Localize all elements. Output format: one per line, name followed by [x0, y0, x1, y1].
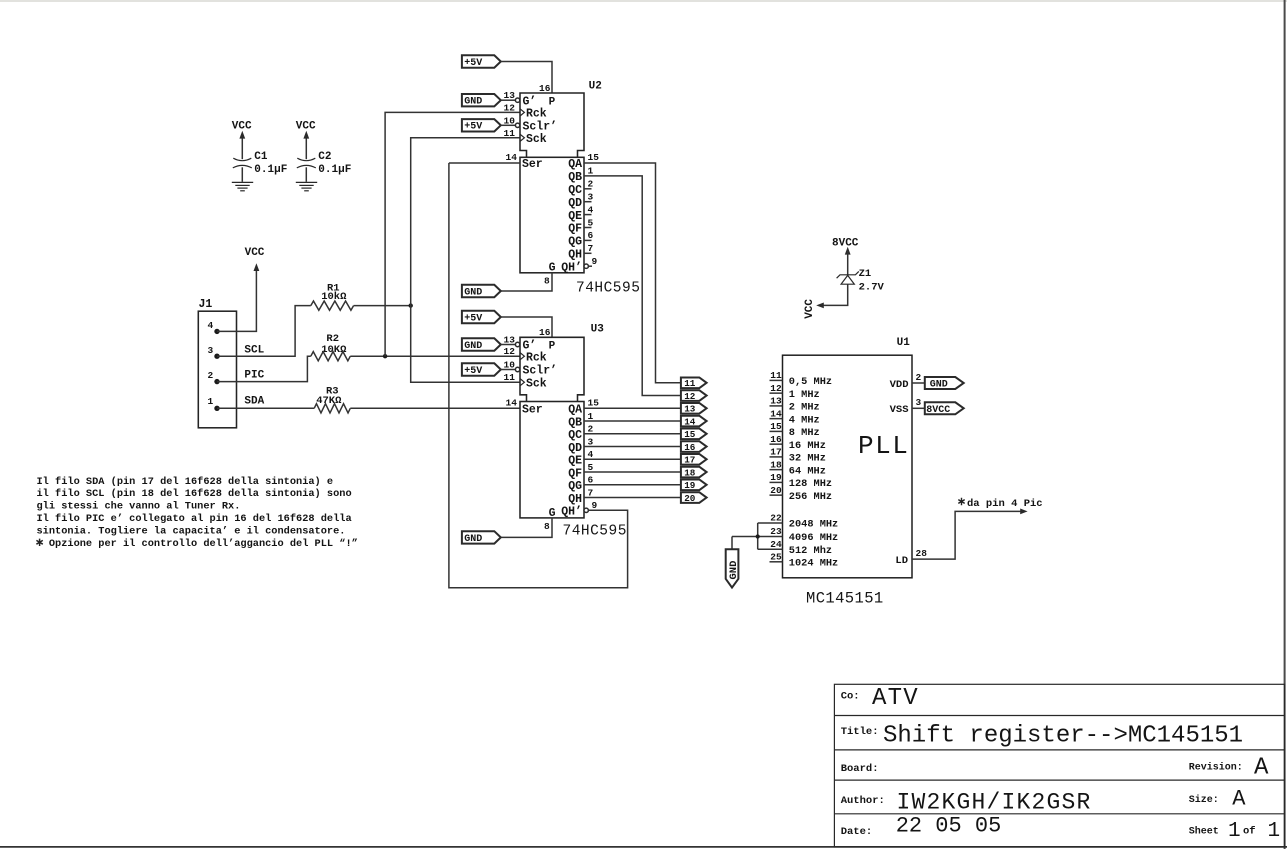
svg-text:il filo SCL (pin 18 del 16f628: il filo SCL (pin 18 del 16f628 della sin…	[37, 488, 352, 500]
svg-text:QH’: QH’	[561, 506, 582, 519]
svg-text:10: 10	[504, 115, 516, 126]
svg-text:6: 6	[588, 475, 594, 486]
pin 24 (512 Mhz)	[758, 539, 832, 557]
svg-text:9: 9	[592, 500, 598, 511]
svg-text:GND: GND	[464, 97, 482, 108]
svg-text:sintonia. Togliere la capacita: sintonia. Togliere la capacita’ e il con…	[37, 526, 346, 538]
power flag +5V (U2 Sclr')	[462, 119, 501, 133]
svg-text:15: 15	[770, 421, 782, 432]
svg-text:18: 18	[684, 467, 696, 478]
wire R2 out to U3 Rck	[350, 355, 520, 357]
pin 3 VSS	[890, 397, 925, 416]
svg-text:2048 MHz: 2048 MHz	[789, 519, 838, 531]
svg-text:Rck: Rck	[526, 351, 547, 364]
wire U2 G pin8 to GND	[501, 273, 552, 291]
svg-text:12: 12	[504, 346, 516, 357]
svg-text:G: G	[549, 262, 556, 275]
svg-text:24: 24	[770, 539, 782, 550]
svg-text:16: 16	[539, 83, 551, 94]
wire U2 QE stub	[584, 214, 592, 216]
svg-text:A: A	[1254, 755, 1269, 782]
power flag GND (PLL pins 22-24, vertical)	[726, 549, 740, 587]
svg-text:da pin 4 Pic: da pin 4 Pic	[967, 498, 1043, 510]
svg-text:+5V: +5V	[464, 313, 482, 324]
wire J1 pin4 to VCC	[217, 267, 256, 332]
svg-text:8: 8	[544, 276, 550, 287]
pin 13 (2 MHz)	[770, 396, 820, 414]
svg-text:Ser: Ser	[522, 404, 543, 417]
wire U2 QG stub	[584, 239, 592, 241]
svg-text:GND: GND	[464, 534, 482, 545]
svg-text:QF: QF	[568, 467, 582, 480]
svg-text:19: 19	[684, 480, 696, 491]
wire U3 QA to flag 13	[584, 407, 681, 409]
wire +5V to U3 Sclr'	[501, 369, 516, 371]
net flag 19	[681, 480, 707, 492]
shift register U3 74HC595 (control section)	[504, 324, 605, 402]
svg-text:GND: GND	[464, 287, 482, 298]
wire U3 QH to flag 20	[584, 497, 681, 499]
wire latch vertical to U2 Rck	[385, 112, 520, 356]
svg-text:17: 17	[684, 455, 695, 466]
svg-text:3: 3	[588, 436, 594, 447]
svg-text:13: 13	[684, 404, 696, 415]
svg-text:Ser: Ser	[522, 158, 543, 171]
wire U2 QA to flag 11	[584, 163, 681, 383]
wire +5V to U3 P	[501, 317, 552, 337]
svg-text:PIC: PIC	[244, 370, 264, 382]
wire U3 QH' cascade loop to U2 Ser	[449, 163, 628, 588]
svg-text:22: 22	[770, 513, 782, 524]
svg-text:28: 28	[916, 548, 928, 559]
svg-text:15: 15	[588, 152, 600, 163]
svg-text:1: 1	[1228, 820, 1241, 843]
svg-text:SCL: SCL	[244, 344, 264, 356]
svg-text:Revision:: Revision:	[1189, 761, 1243, 773]
svg-text:16: 16	[684, 442, 696, 453]
svg-text:2.7V: 2.7V	[859, 281, 885, 293]
svg-text:3: 3	[207, 345, 213, 356]
svg-text:11: 11	[504, 128, 516, 139]
zener diode Z1 2.7V	[804, 237, 885, 318]
node junction R1/clock	[409, 303, 413, 307]
svg-text:C2: C2	[318, 151, 331, 163]
wire U3 QF to flag 18	[584, 471, 681, 473]
shift register U2 74HC595 (output section)	[506, 152, 641, 297]
svg-text:0,5 MHz: 0,5 MHz	[789, 376, 832, 388]
shift register U2 74HC595 (control section)	[504, 81, 602, 158]
wire U3 QD to flag 16	[584, 446, 681, 448]
pin 15 (8 MHz)	[770, 421, 820, 439]
svg-text:of: of	[1243, 825, 1256, 837]
svg-text:GND: GND	[464, 341, 482, 352]
svg-text:U3: U3	[591, 324, 605, 336]
svg-text:QA: QA	[568, 158, 582, 171]
wire U2 QB to flag 12	[584, 176, 681, 396]
pin 2 VDD	[890, 372, 925, 391]
power flag GND (U3 pin8)	[462, 531, 501, 545]
net flag 14	[681, 416, 707, 428]
svg-text:47KΩ: 47KΩ	[316, 395, 342, 407]
svg-text:14: 14	[506, 152, 518, 163]
svg-text:3: 3	[588, 192, 594, 203]
svg-text:64 MHz: 64 MHz	[789, 465, 826, 477]
svg-text:16: 16	[539, 327, 551, 338]
pin 20 (256 MHz)	[770, 485, 833, 503]
power flag 8VCC (VSS)	[925, 402, 964, 416]
svg-text:Size:: Size:	[1189, 794, 1219, 806]
svg-text:ATV: ATV	[872, 685, 919, 712]
svg-text:7: 7	[588, 487, 594, 498]
pin 23 (4096 MHz)	[732, 526, 838, 544]
svg-text:QA: QA	[568, 404, 582, 417]
wire U2 QD stub	[584, 201, 592, 203]
power flag GND (U2 G')	[462, 94, 501, 108]
svg-text:8: 8	[544, 521, 550, 532]
svg-text:Title:: Title:	[841, 726, 879, 738]
svg-text:Sclr’: Sclr’	[523, 365, 558, 378]
wire GND to U3 G'	[501, 344, 516, 346]
sheet top border (faint)	[0, 0, 1287, 2]
svg-text:Author:: Author:	[841, 795, 885, 807]
svg-text:QD: QD	[568, 442, 582, 455]
svg-text:P: P	[549, 341, 556, 353]
svg-text:9: 9	[592, 256, 598, 267]
svg-text:G’: G’	[523, 95, 537, 108]
svg-text:gli stessi che vanno al Tuner: gli stessi che vanno al Tuner Rx.	[37, 501, 241, 513]
svg-text:4 MHz: 4 MHz	[789, 414, 820, 426]
svg-text:6: 6	[588, 230, 594, 241]
power flag +5V (U3 pin16)	[462, 311, 501, 325]
svg-text:QG: QG	[568, 236, 582, 249]
svg-text:13: 13	[504, 335, 516, 346]
svg-text:G: G	[549, 507, 556, 520]
wire R3 out to U3 Ser	[350, 407, 520, 409]
wire U2 QH stub	[584, 252, 592, 254]
svg-text:128 MHz: 128 MHz	[789, 478, 832, 490]
svg-text:Sheet: Sheet	[1189, 825, 1219, 837]
svg-text:25: 25	[770, 552, 782, 563]
svg-text:20: 20	[770, 485, 782, 496]
node SCL: wire J1 pin3 to R1	[217, 306, 311, 357]
pin 12 (1 MHz)	[770, 383, 820, 401]
svg-text:+5V: +5V	[464, 366, 482, 377]
svg-text:13: 13	[504, 90, 516, 101]
svg-text:MC145151: MC145151	[806, 590, 884, 608]
svg-text:16: 16	[770, 434, 782, 445]
svg-text:7: 7	[588, 243, 594, 254]
svg-text:SDA: SDA	[244, 395, 264, 407]
svg-text:VSS: VSS	[890, 404, 909, 416]
wire U3 QE to flag 17	[584, 458, 681, 460]
svg-text:74HC595: 74HC595	[576, 281, 640, 297]
svg-text:1024 MHz: 1024 MHz	[789, 557, 838, 569]
svg-text:QF: QF	[568, 223, 582, 236]
svg-text:74HC595: 74HC595	[563, 524, 627, 540]
svg-text:8VCC: 8VCC	[832, 237, 859, 249]
svg-text:QB: QB	[568, 171, 582, 184]
wire U2 QF stub	[584, 227, 592, 229]
power flag GND (U2 pin8)	[462, 285, 501, 299]
wire bracket pins 22-24	[757, 523, 759, 549]
wire U3 G pin8 to GND	[501, 518, 552, 538]
wire U2 QH' stub	[588, 265, 592, 267]
wire U2 Ser input (from cascade)	[449, 162, 520, 164]
svg-text:J1: J1	[199, 298, 213, 311]
svg-text:1: 1	[588, 166, 594, 177]
capacitor C2	[296, 120, 352, 182]
node junction R2/latch	[383, 354, 387, 358]
net flag 12	[681, 390, 707, 402]
wire +5V to U2 Sclr'	[501, 124, 516, 126]
pin 18 (64 MHz)	[770, 459, 826, 477]
power flag VCC (J1)	[245, 247, 265, 271]
svg-text:12: 12	[770, 383, 782, 394]
svg-text:VCC: VCC	[296, 120, 316, 132]
svg-text:QB: QB	[568, 416, 582, 429]
svg-text:5: 5	[588, 217, 594, 228]
svg-text:20: 20	[684, 493, 696, 504]
shift register U3 74HC595 (output section)	[506, 398, 627, 540]
resistor R1 10kOhm	[311, 282, 354, 310]
svg-text:Opzione per il controllo dell’: Opzione per il controllo dell’aggancio d…	[37, 538, 358, 550]
svg-text:1: 1	[588, 411, 594, 422]
power flag +5V (U3 Sclr')	[462, 363, 501, 377]
svg-text:QE: QE	[568, 210, 582, 223]
pin 19 (128 MHz)	[770, 472, 833, 490]
pin 17 (32 MHz)	[770, 447, 826, 465]
svg-text:Sck: Sck	[526, 377, 547, 390]
svg-text:13: 13	[770, 396, 782, 407]
Italian note text	[36, 476, 357, 550]
svg-text:A: A	[1232, 787, 1246, 812]
svg-text:14: 14	[506, 398, 518, 409]
svg-text:5: 5	[588, 462, 594, 473]
svg-text:4096 MHz: 4096 MHz	[789, 532, 838, 544]
wire to vertical GND flag	[731, 537, 733, 550]
svg-text:11: 11	[684, 378, 696, 389]
PLL U1 MC145151	[783, 337, 913, 608]
svg-text:GND: GND	[728, 561, 740, 580]
svg-text:QH’: QH’	[561, 261, 582, 274]
svg-text:0.1µF: 0.1µF	[318, 164, 351, 176]
svg-text:18: 18	[770, 459, 782, 470]
net flag 20	[681, 492, 707, 504]
svg-text:Z1: Z1	[859, 268, 872, 280]
node SDA: wire J1 pin1 to R3	[217, 407, 314, 409]
wire clock vertical to U2 Sck and U3 Sck	[411, 138, 520, 382]
pin 16 (16 MHz)	[770, 434, 826, 452]
svg-text:Il filo PIC e’ collegato al pi: Il filo PIC e’ collegato al pin 16 del 1…	[37, 513, 352, 525]
power flag GND (U3 G')	[462, 338, 501, 352]
svg-text:1: 1	[207, 396, 213, 407]
svg-text:QD: QD	[568, 197, 582, 210]
pin 22 (2048 MHz)	[758, 513, 839, 531]
svg-text:22 05 05: 22 05 05	[896, 814, 1002, 839]
svg-text:11: 11	[504, 372, 516, 383]
svg-text:23: 23	[770, 526, 782, 537]
svg-text:2: 2	[916, 372, 922, 383]
pin 25 (1024 MHz)	[770, 552, 839, 570]
svg-text:QC: QC	[568, 429, 582, 442]
svg-text:17: 17	[770, 447, 782, 458]
svg-text:11: 11	[770, 370, 782, 381]
svg-text:2: 2	[588, 179, 594, 190]
svg-text:3: 3	[916, 397, 922, 408]
svg-text:2 MHz: 2 MHz	[789, 402, 820, 414]
svg-text:R2: R2	[326, 333, 339, 345]
svg-text:14: 14	[770, 408, 782, 419]
capacitor C1	[232, 120, 288, 182]
ground (C2)	[296, 182, 317, 190]
resistor R3 47KOhm	[314, 386, 350, 413]
svg-text:P: P	[549, 96, 556, 108]
svg-text:19: 19	[770, 472, 782, 483]
title block	[834, 684, 1284, 847]
svg-text:IW2KGH/IK2GSR: IW2KGH/IK2GSR	[897, 790, 1092, 816]
svg-text:QH: QH	[568, 249, 582, 262]
svg-text:1: 1	[1268, 820, 1281, 843]
svg-text:32 MHz: 32 MHz	[789, 453, 826, 465]
wire +5V to U2 P	[501, 62, 552, 94]
svg-text:Board:: Board:	[841, 763, 879, 775]
svg-text:4: 4	[588, 204, 594, 215]
svg-text:2: 2	[588, 424, 594, 435]
wire R1 out to junction	[354, 305, 411, 307]
wire U3 QC to flag 15	[584, 433, 681, 435]
svg-text:15: 15	[588, 398, 600, 409]
node junction pin23/GND	[756, 534, 760, 538]
power flag GND (VDD)	[925, 377, 964, 391]
svg-text:Il filo SDA (pin 17 del 16f628: Il filo SDA (pin 17 del 16f628 della sin…	[37, 476, 334, 488]
svg-text:0.1µF: 0.1µF	[254, 164, 287, 176]
net flag 13	[681, 403, 707, 415]
sheet bottom border	[0, 846, 1287, 848]
svg-text:+5V: +5V	[464, 122, 482, 133]
svg-text:512 Mhz: 512 Mhz	[789, 545, 832, 557]
wire U3 QG to flag 19	[584, 484, 681, 486]
svg-text:12: 12	[504, 102, 516, 113]
pin 11 (0,5 MHz)	[770, 370, 833, 388]
wire U3 QB to flag 14	[584, 420, 681, 422]
svg-text:8 MHz: 8 MHz	[789, 427, 820, 439]
svg-text:Rck: Rck	[526, 108, 547, 121]
connector J1	[198, 298, 236, 428]
svg-text:Co:: Co:	[841, 691, 860, 703]
sheet right border	[1284, 0, 1286, 849]
node PIC: wire J1 pin2 to R2	[217, 356, 311, 381]
svg-text:U2: U2	[589, 81, 602, 93]
svg-text:QG: QG	[568, 480, 582, 493]
svg-text:QC: QC	[568, 184, 582, 197]
svg-text:GND: GND	[930, 380, 948, 391]
svg-text:C1: C1	[254, 151, 268, 163]
pin 14 (4 MHz)	[770, 408, 820, 426]
pin 28 LD with arrow "da pin 4 Pic"	[895, 498, 1042, 567]
svg-text:Shift register-->MC145151: Shift register-->MC145151	[883, 723, 1243, 750]
svg-text:QH: QH	[568, 493, 582, 506]
svg-text:12: 12	[684, 391, 696, 402]
svg-text:+5V: +5V	[464, 58, 482, 69]
svg-text:PLL: PLL	[858, 431, 909, 461]
svg-text:VCC: VCC	[232, 120, 252, 132]
svg-text:256 MHz: 256 MHz	[789, 491, 832, 503]
power flag +5V (U2 pin16)	[462, 55, 501, 69]
svg-text:QE: QE	[568, 455, 582, 468]
svg-text:8VCC: 8VCC	[926, 405, 950, 416]
net flag 16	[681, 441, 707, 453]
ground (C1)	[232, 182, 253, 190]
wire U2 QC stub	[584, 188, 592, 190]
svg-text:4: 4	[207, 320, 213, 331]
net flag 18	[681, 467, 707, 479]
svg-text:VCC: VCC	[804, 299, 816, 319]
wire GND to U2 G'	[501, 99, 516, 101]
svg-text:16 MHz: 16 MHz	[789, 440, 826, 452]
svg-text:10: 10	[504, 360, 516, 371]
svg-text:VDD: VDD	[890, 379, 909, 391]
svg-text:U1: U1	[897, 337, 911, 349]
net flag 11	[681, 378, 707, 390]
svg-text:15: 15	[684, 429, 696, 440]
svg-text:4: 4	[588, 449, 594, 460]
svg-text:1 MHz: 1 MHz	[789, 389, 820, 401]
svg-text:VCC: VCC	[245, 247, 265, 259]
svg-text:Date:: Date:	[841, 826, 873, 838]
svg-text:14: 14	[684, 416, 696, 427]
svg-text:Sclr’: Sclr’	[523, 121, 558, 134]
svg-text:LD: LD	[895, 555, 908, 567]
net flag 15	[681, 429, 707, 441]
resistor R2 10KOhm	[311, 333, 351, 361]
net flag 17	[681, 454, 707, 466]
svg-text:Sck: Sck	[526, 133, 547, 146]
svg-text:2: 2	[207, 370, 213, 381]
